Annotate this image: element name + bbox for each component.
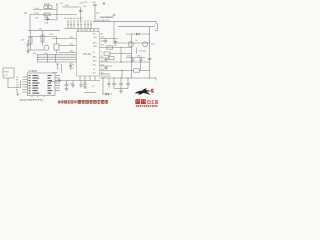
capacitor C13 under IC — [69, 63, 75, 71]
wire from connector — [8, 78, 21, 88]
svg-text:12V: 12V — [21, 40, 25, 42]
svg-text:+: + — [24, 42, 26, 44]
svg-text:45: 45 — [101, 33, 103, 35]
svg-text:AF2: AF2 — [93, 60, 96, 63]
IC U1 left pin net y52 — [59, 52, 77, 54]
wire vertical x61 — [61, 64, 63, 73]
capacitor C15 on y66 — [104, 66, 107, 71]
ground stub 2 — [79, 81, 83, 88]
junction dots y78 — [113, 77, 150, 78]
logo text main — [136, 100, 146, 104]
svg-text:33: 33 — [101, 56, 103, 58]
svg-text:10k: 10k — [114, 45, 117, 47]
bus wire 2 — [38, 56, 77, 58]
junction dot — [140, 61, 141, 62]
bus wire 4 — [38, 61, 77, 63]
junction dot — [120, 47, 121, 48]
svg-text:1uF: 1uF — [71, 68, 75, 70]
diode D2 — [57, 79, 62, 82]
diode D3 — [102, 93, 112, 96]
bus junction ticks — [48, 54, 56, 63]
svg-text:2.2uF: 2.2uF — [44, 4, 50, 6]
svg-text:AF1: AF1 — [93, 56, 96, 59]
junction dot — [56, 14, 57, 15]
resistor R10 on y58 — [109, 57, 115, 60]
svg-text:C56: C56 — [71, 64, 74, 66]
arrow out left — [49, 81, 57, 83]
svg-text:1uF: 1uF — [35, 8, 39, 10]
IC U2 CK80AV — [28, 70, 56, 95]
wire net y50 — [28, 49, 44, 51]
wire arrow up node A — [56, 3, 58, 10]
transistor Q1 — [128, 42, 133, 47]
svg-text:10u: 10u — [101, 72, 104, 74]
wire y92 — [84, 92, 96, 94]
wire vertical x121 — [120, 48, 122, 63]
svg-text:104: 104 — [83, 6, 87, 8]
junction dot — [131, 61, 132, 62]
svg-text:IN2: IN2 — [70, 44, 73, 46]
wire net 3 — [44, 19, 57, 21]
wire vertical x122 — [121, 71, 123, 79]
svg-text:C44 100u: C44 100u — [138, 51, 146, 53]
resistor R6 — [41, 31, 44, 46]
svg-text:12V: 12V — [96, 13, 100, 15]
wire join y53 — [110, 53, 113, 55]
wire net y53 — [113, 53, 132, 55]
logo red accent — [151, 89, 155, 93]
wire vertical x131 — [131, 34, 133, 78]
svg-text:NJM78M05FL: NJM78M05FL — [100, 17, 115, 19]
svg-text:1uF: 1uF — [35, 17, 39, 19]
junction dot — [131, 53, 132, 54]
svg-text:104: 104 — [33, 53, 36, 55]
logo url line — [136, 105, 158, 107]
logo bird — [135, 88, 152, 95]
capacitor C12 — [83, 81, 87, 89]
bus wire 1 — [38, 54, 77, 56]
svg-text:IN1: IN1 — [70, 37, 73, 39]
junction dot — [131, 42, 132, 43]
ground bank — [119, 89, 123, 94]
svg-text:470u: 470u — [127, 56, 131, 58]
wire top-left net 1 — [33, 9, 57, 11]
right pin labels — [93, 33, 117, 74]
svg-text:5.6k: 5.6k — [65, 5, 70, 7]
IC U2 row texts — [29, 75, 53, 94]
wire bottom net — [60, 80, 100, 82]
wire second rail — [64, 28, 100, 30]
IC U1 — [77, 32, 100, 77]
IC U2 right pin stubs — [55, 76, 60, 91]
diode D1 — [126, 33, 150, 36]
junction dot — [149, 42, 150, 43]
resistor R5 — [29, 31, 32, 50]
svg-text:16V: 16V — [101, 44, 105, 46]
capacitor C2 250 — [45, 16, 50, 25]
plus mark small — [17, 93, 20, 96]
capacitor C14 on y58 — [104, 58, 107, 62]
svg-text:PTLAS: PTLAS — [83, 52, 91, 56]
connector CN2 — [155, 24, 158, 30]
svg-text:B+: B+ — [136, 40, 139, 42]
capacitor bank C9 C10 C11 — [112, 78, 130, 89]
IC U1 bottom pin stubs — [80, 76, 95, 81]
capacitor C8 — [114, 40, 118, 44]
wire base line — [114, 42, 150, 44]
resistor R9 — [134, 69, 140, 72]
svg-text:VDD: VDD — [93, 46, 98, 48]
junction dot — [121, 70, 122, 71]
connector hook right — [154, 78, 157, 81]
wire vertical x136 mid — [136, 48, 138, 54]
wire vertical right rail — [149, 27, 151, 78]
svg-text:47u: 47u — [101, 60, 104, 62]
svg-text:220: 220 — [101, 69, 104, 71]
ground left — [26, 50, 30, 53]
svg-text:104: 104 — [101, 64, 104, 66]
svg-text:IN: IN — [25, 12, 28, 15]
svg-text:C31: C31 — [101, 37, 104, 39]
svg-text:C12: C12 — [84, 2, 87, 4]
svg-text:104: 104 — [151, 43, 155, 45]
wire vertical join — [56, 10, 58, 20]
wire vertical from rail — [113, 22, 115, 43]
svg-text:104: 104 — [101, 41, 104, 43]
resistor R2 20k — [44, 13, 50, 19]
svg-text:FMU: FMU — [4, 72, 9, 74]
capacitor C4 103 with ground — [92, 2, 105, 22]
IC U1 left pin net y38 — [52, 38, 77, 40]
svg-text:OSC: OSC — [93, 37, 98, 39]
junction dot — [102, 77, 103, 78]
svg-text:1k: 1k — [101, 52, 103, 54]
wire 12V rail 2 — [118, 26, 155, 28]
svg-text:250: 250 — [45, 22, 49, 24]
wire vertical x103 — [102, 78, 104, 94]
svg-text:103: 103 — [92, 2, 96, 4]
resistor R8 — [104, 52, 110, 55]
capacitor C6 to ground — [65, 81, 69, 91]
transistor Q5 — [143, 42, 148, 47]
capacitor C1 2.2uF — [44, 4, 52, 9]
svg-text:22k: 22k — [50, 34, 53, 36]
IC U1 right pin nets — [100, 39, 150, 75]
left pin labels — [70, 37, 75, 53]
capacitor C5 polar with plus — [24, 40, 30, 50]
IC U1 top pin stubs — [79, 29, 99, 32]
capacitor bank 470uF — [126, 56, 145, 62]
bus left vertical — [37, 54, 39, 62]
regulator Q3 vertical — [54, 37, 59, 54]
bus wire 3 — [38, 59, 77, 61]
svg-text:47k: 47k — [39, 29, 43, 31]
wire y36 net — [28, 36, 57, 38]
svg-text:B+: B+ — [61, 3, 64, 5]
svg-text:47 103 68 47u 101 473: 47 103 68 47u 101 473 — [64, 18, 83, 20]
wire vertical x140 — [140, 62, 142, 71]
capacitor array between rails — [67, 20, 92, 29]
wire net 2 — [30, 14, 77, 16]
junction dot — [149, 33, 150, 34]
caption red title — [58, 100, 108, 103]
IC U1 left pin net y45 — [59, 45, 77, 47]
+5V stub — [53, 64, 60, 73]
IC U2 left pin labels — [16, 77, 19, 94]
ground stub 1 — [71, 81, 75, 88]
svg-text:AFC: AFC — [93, 41, 97, 44]
resistor R7 — [107, 46, 113, 49]
plus mark node B — [113, 14, 116, 17]
junction dot — [120, 61, 121, 62]
svg-text:CK80AV: CK80AV — [29, 70, 38, 73]
capacitor C17 on rail — [148, 58, 152, 59]
junction dot — [131, 70, 132, 71]
svg-text:471: 471 — [92, 86, 95, 88]
junction dot — [113, 42, 114, 43]
IC U2 bottom stubs — [32, 96, 44, 98]
resistor R3 5.6k — [62, 5, 80, 7]
svg-text:(87AP,78B*#*#*#*#*): (87AP,78B*#*#*#*#*) — [20, 98, 44, 102]
svg-text:47uF: 47uF — [34, 13, 40, 15]
wire VCC top rail — [93, 21, 157, 23]
wire vertical left branch — [29, 15, 31, 31]
transistor Q2 — [44, 45, 49, 50]
svg-text:100u: 100u — [137, 56, 141, 58]
connector P1 FMU — [3, 68, 14, 78]
IC U2 left pin stubs — [23, 77, 28, 92]
capacitor C3 104 — [79, 6, 88, 21]
capacitor C7 — [104, 39, 108, 44]
wire 47k net — [28, 30, 60, 32]
wire long bottom net y78 — [100, 77, 157, 79]
capacitor C16 — [107, 78, 110, 88]
